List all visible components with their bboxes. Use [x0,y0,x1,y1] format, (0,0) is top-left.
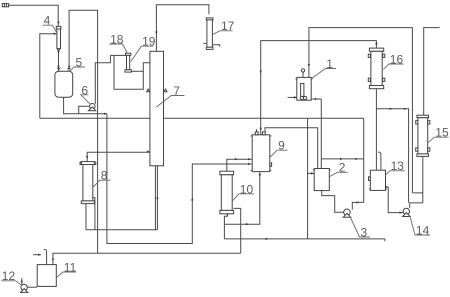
svg-text:6: 6 [81,83,88,97]
svg-text:7: 7 [173,84,180,98]
